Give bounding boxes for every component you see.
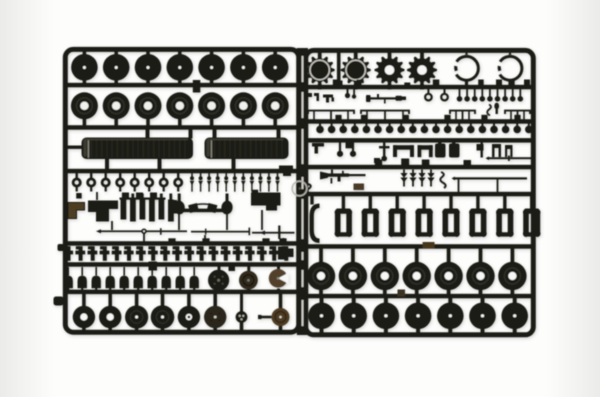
gate block on rail L5 #2 xyxy=(229,264,236,272)
horizontal runner rail L4 left half xyxy=(65,241,299,246)
clip bracket #16 xyxy=(248,246,252,261)
solid road wheel #4 xyxy=(416,298,420,305)
hub wheel row2 #4 xyxy=(166,92,193,119)
clip bracket #4 xyxy=(103,246,107,261)
round-head pin row2 #10 xyxy=(423,123,425,127)
tree pin #3 xyxy=(418,173,425,178)
curved channel bracket xyxy=(310,196,313,205)
screw pin #3 xyxy=(208,173,210,178)
road wheel with hub #7 xyxy=(511,249,515,263)
wire gate below hub wheel 4 xyxy=(178,119,182,126)
solid road wheel #7 xyxy=(513,298,517,305)
U-channel bracket #1 xyxy=(393,145,414,150)
gate square below rail L3 xyxy=(136,193,143,200)
dome knob #8 xyxy=(165,267,167,276)
S-curl part xyxy=(440,172,445,188)
stem between sprockets xyxy=(337,53,341,86)
drive sprocket #3 xyxy=(375,50,405,90)
gate square above rail A xyxy=(357,80,362,88)
horizontal runner rail F right half xyxy=(306,244,534,249)
gate square on rail B xyxy=(335,115,341,121)
gate block on rail L1 xyxy=(193,80,201,93)
pin head-down #4 xyxy=(481,89,483,97)
junction seam slit xyxy=(302,199,304,239)
hammer pin #1 xyxy=(339,142,341,152)
tree pin #2 xyxy=(409,173,416,178)
ring-head rivet #6 xyxy=(148,173,150,179)
road wheel with hub #1 xyxy=(319,249,323,263)
track shackle link #1 xyxy=(342,196,345,210)
junction seam bar xyxy=(297,48,308,335)
gate square above rail A xyxy=(524,80,530,88)
junction seam slit xyxy=(302,270,304,287)
drive sprocket #4 xyxy=(407,50,437,90)
junction seam slit xyxy=(302,129,304,164)
round-head pin row2 #4 xyxy=(354,123,356,127)
pin head-down #6 xyxy=(497,89,499,97)
horizontal runner rail L5 left half xyxy=(65,262,299,267)
small ring part #2 xyxy=(444,89,446,94)
screw pin #8 xyxy=(251,173,253,178)
dome knob #6 xyxy=(137,267,139,276)
gate square on rail L4 xyxy=(279,238,286,244)
road wheel with hub #2 xyxy=(351,249,355,263)
ribbed exhaust cylinder right xyxy=(205,138,289,160)
small S-hook part xyxy=(487,105,491,116)
wire gate above disc 3 xyxy=(146,51,150,57)
part on rail L3 near seam xyxy=(279,166,293,172)
sprue frame right half outer border xyxy=(306,50,534,334)
screw pin #10 xyxy=(268,173,270,178)
gate square on rail L4 xyxy=(168,238,175,244)
wire gate below disc 3 xyxy=(146,79,150,85)
horizontal runner rail A right half xyxy=(306,85,534,90)
wire gate below hub wheel 2 xyxy=(114,119,118,126)
horizontal runner rail C right half xyxy=(306,138,534,143)
pin head-down #7 xyxy=(504,89,506,97)
grab handle rod #2 xyxy=(361,111,409,114)
bottom road wheel #4 xyxy=(161,294,165,307)
wire gate above disc 4 xyxy=(178,51,182,57)
dome knob #5 xyxy=(123,267,125,276)
bottom road wheel #2 xyxy=(108,294,112,308)
thin axle rod with bead xyxy=(96,229,101,233)
gate square on rail B xyxy=(403,115,409,121)
round-head pin row2 #12 xyxy=(447,123,449,127)
track shackle link #4 xyxy=(422,196,425,210)
clip bracket #6 xyxy=(127,246,131,261)
clip bracket #18 xyxy=(272,246,276,261)
sprue stem xyxy=(96,192,98,200)
gate square below rail L3 xyxy=(76,193,82,199)
wire gate below disc 1 xyxy=(83,79,87,85)
axle assembly right wheel xyxy=(221,200,234,215)
round-head pin row2 #14 xyxy=(470,123,472,127)
large road-wheel disc row1 #2 xyxy=(103,54,130,81)
ring-head rivet #3 xyxy=(105,173,107,179)
hub wheel row2 #6 xyxy=(230,92,257,119)
round-head pin row2 #17 xyxy=(505,123,507,127)
sprue stem xyxy=(204,235,206,242)
S-hook left xyxy=(307,184,311,194)
track shackle link #7 xyxy=(503,196,506,210)
ring-head rivet #1 xyxy=(76,173,78,179)
ribbed exhaust cylinder left xyxy=(82,138,194,160)
open retaining ring #2 xyxy=(498,51,522,86)
solid road wheel #5 xyxy=(448,298,452,305)
solid block part xyxy=(251,193,281,206)
gate block on rail F xyxy=(423,242,435,249)
open retaining ring #1 xyxy=(454,51,478,86)
bottom road wheel #3 xyxy=(135,294,139,307)
tree pin #4 xyxy=(427,173,434,178)
clip bracket #14 xyxy=(224,246,228,261)
grab handle rod #3 xyxy=(450,111,475,114)
pin head-down #8 xyxy=(512,89,514,97)
clip bracket #15 xyxy=(236,246,240,261)
sprue stem xyxy=(283,238,285,242)
canister part #1 xyxy=(435,144,446,158)
gate square on rail B xyxy=(444,115,450,121)
grab handle rod #1 xyxy=(308,111,354,114)
screw pin #7 xyxy=(243,173,245,178)
round-head pin row2 #7 xyxy=(389,123,391,127)
gate square above rail A xyxy=(333,80,340,88)
screw pin #5 xyxy=(225,173,227,178)
hub wheel row2 #1 xyxy=(71,92,98,119)
round-head pin row2 #3 xyxy=(342,123,344,127)
axle assembly linkage xyxy=(182,209,224,213)
wire gate below right cylinder xyxy=(232,158,236,169)
horizontal runner rail G right half xyxy=(306,294,534,299)
horizontal runner rail L6 left half xyxy=(65,290,299,295)
bottom road wheel #6 xyxy=(213,294,217,308)
small lever part xyxy=(496,103,498,114)
gate block on rail L5 xyxy=(149,262,158,271)
tab on left frame edge upper xyxy=(58,244,65,251)
clevis fork #1 xyxy=(492,144,501,157)
valve figure part xyxy=(383,143,385,158)
horizontal runner rail D right half xyxy=(306,165,534,170)
wire gate above disc 7 xyxy=(273,51,277,57)
wire gate above right cylinder end xyxy=(277,129,281,139)
road wheel with hub #4 xyxy=(415,249,419,263)
gate square on rail B xyxy=(361,115,367,121)
dome knob #7 xyxy=(151,267,153,276)
dome knob #9 xyxy=(179,267,181,276)
T-handle rod xyxy=(252,232,295,234)
machine gun part xyxy=(320,172,328,180)
clip bracket #19 xyxy=(284,246,288,261)
drive sprocket #2 xyxy=(341,50,371,90)
clip bracket #17 xyxy=(260,246,264,261)
road wheel with hub #3 xyxy=(383,249,387,263)
junction seam slit xyxy=(302,56,304,82)
large road-wheel disc row1 #3 xyxy=(135,54,162,81)
round-head pin row2 #1 xyxy=(319,123,321,127)
pin head-down #5 xyxy=(489,89,491,97)
wire gate below left cylinder xyxy=(105,158,109,169)
wire gate below hub wheel 7 xyxy=(273,119,277,126)
small hook pair xyxy=(345,93,350,98)
bottom road wheel #1 xyxy=(82,294,86,308)
gate square above rail A xyxy=(509,80,515,88)
gate square below rail L3 xyxy=(150,193,157,200)
tab on left frame edge lower xyxy=(54,297,64,306)
track shackle link #3 xyxy=(396,196,399,210)
comb plate bar #3 xyxy=(140,200,146,220)
stepped bracket part (brown) xyxy=(68,203,85,219)
wire gate below disc 5 xyxy=(210,79,214,85)
stepped bracket part 2 xyxy=(88,201,118,222)
small bar part xyxy=(173,200,178,214)
gate square on rail B xyxy=(514,115,520,121)
gate square above rail A xyxy=(433,80,440,88)
clip bracket #7 xyxy=(139,246,143,261)
ring-head rivet #5 xyxy=(134,173,136,179)
round-head pin row2 #18 xyxy=(516,123,518,127)
gate square above rail A xyxy=(496,80,502,88)
gate square on rail B xyxy=(481,115,487,121)
road wheel with hub #5 xyxy=(447,249,451,263)
screw pin #4 xyxy=(217,173,219,178)
solid road wheel #6 xyxy=(481,298,485,305)
wire gate above disc 5 xyxy=(210,51,214,57)
solid road wheel #2 xyxy=(352,298,356,305)
clip bracket #5 xyxy=(115,246,119,261)
horizontal runner rail L3 left half xyxy=(65,169,299,174)
sprue stem xyxy=(226,214,228,230)
junction seam slit xyxy=(302,300,304,326)
pin head-down #1 xyxy=(459,89,461,97)
comb plate bar #6 xyxy=(168,200,174,222)
round-head pin row2 #9 xyxy=(412,123,414,127)
round-head pin row2 #2 xyxy=(331,123,333,127)
road wheel with hub #6 xyxy=(479,249,483,263)
track shackle link #6 xyxy=(476,196,479,210)
sprue stem xyxy=(111,221,113,230)
gate square above rail D #1 xyxy=(375,160,382,168)
screw pin #1 xyxy=(191,173,193,178)
tow hook part xyxy=(306,93,312,102)
axle assembly left wheel xyxy=(173,200,186,215)
ring-head rivet #2 xyxy=(90,173,92,179)
dome knob #4 xyxy=(109,267,111,276)
clip bracket #8 xyxy=(151,246,155,261)
screw pin #2 xyxy=(200,173,202,178)
gate square on rail C xyxy=(346,142,353,148)
wire gate above disc 1 xyxy=(83,51,87,57)
wire gate below hub wheel 5 xyxy=(210,119,214,126)
round-head pin row2 #19 xyxy=(528,123,530,127)
wire gate below left cylinder 2 xyxy=(158,158,162,169)
pin head-down #9 xyxy=(519,89,521,97)
grab handle rod #4 xyxy=(505,111,530,114)
track shackle link #8 xyxy=(530,196,533,210)
thin rod above rail D xyxy=(487,157,531,159)
junction seam slit xyxy=(302,177,304,189)
embossed circle mark xyxy=(292,181,307,196)
large road-wheel disc row1 #1 xyxy=(71,54,98,81)
tree pin #1 xyxy=(400,173,407,178)
gate square above rail D #2 xyxy=(401,159,409,168)
comb plate bar #1 xyxy=(121,200,127,220)
wire gate above right cylinder xyxy=(213,129,217,139)
wire gate below hub wheel 3 xyxy=(146,119,150,126)
round-head pin row2 #8 xyxy=(400,123,402,127)
gate square above rail A xyxy=(478,80,484,88)
wire gate below hub wheel 1 xyxy=(83,119,87,126)
wire gate above disc 2 xyxy=(114,51,118,57)
round-head pin row2 #16 xyxy=(493,123,495,127)
clip bracket #13 xyxy=(212,246,216,261)
wire gate left of cylinder xyxy=(67,146,83,149)
hammer pin #2 xyxy=(352,142,354,152)
clip bracket #11 xyxy=(188,246,192,261)
bottom road wheel #8 xyxy=(279,294,283,310)
drive sprocket #1 xyxy=(305,50,335,90)
blocks near seam xyxy=(278,247,285,260)
wire gate below disc 2 xyxy=(114,79,118,85)
large road-wheel disc row1 #6 xyxy=(230,54,257,81)
axe part xyxy=(481,143,483,158)
sprue stem xyxy=(261,210,263,230)
sprue frame left half outer border xyxy=(65,49,298,332)
gun barrel part xyxy=(366,95,371,102)
thin axle rod 2 xyxy=(191,231,250,233)
small ring part #1 xyxy=(427,89,429,94)
ring-head rivet #8 xyxy=(177,173,179,179)
hub disc with lug holes xyxy=(218,267,221,273)
clevis fork #2 xyxy=(505,145,513,157)
sprue stem xyxy=(143,233,145,242)
screw pin #11 xyxy=(277,173,279,178)
gate square on rail L4 xyxy=(262,238,269,244)
brown gate block on rail E xyxy=(354,184,365,191)
horizontal runner rail E right half xyxy=(306,192,534,197)
clamp part xyxy=(312,143,324,154)
clip bracket #3 xyxy=(91,246,95,261)
gate block on rail A xyxy=(404,83,410,89)
track shackle link #2 xyxy=(369,196,372,210)
hub wheel row2 #2 xyxy=(103,92,130,119)
comb plate bar #5 xyxy=(159,200,165,220)
ring-head rivet #7 xyxy=(163,173,165,179)
bottom road wheel #5 xyxy=(187,294,191,308)
wire gate below disc 4 xyxy=(178,79,182,85)
clip bracket #9 xyxy=(163,246,167,261)
large road-wheel disc row1 #4 xyxy=(167,54,194,81)
round-head pin row2 #5 xyxy=(365,123,367,127)
comb plate bar #4 xyxy=(149,200,155,222)
screw pin #6 xyxy=(234,173,236,178)
pin head-down #3 xyxy=(474,89,476,97)
screw pin #9 xyxy=(260,173,262,178)
hub wheel row2 #5 xyxy=(198,92,225,119)
clip bracket #2 xyxy=(79,246,83,261)
gate block on rail G xyxy=(398,290,406,297)
bottom road wheel #7 xyxy=(240,294,243,312)
solid road wheel #1 xyxy=(320,298,324,305)
junction seam slit xyxy=(302,252,304,260)
round-head pin row2 #15 xyxy=(481,123,483,127)
hinge part xyxy=(323,95,333,98)
horizontal runner rail L1 left half xyxy=(65,83,299,88)
wire gate below hub wheel 6 xyxy=(242,119,246,126)
junction seam slit xyxy=(302,92,304,118)
horizontal runner rail B right half xyxy=(306,119,534,124)
sprue stem xyxy=(178,214,180,230)
pin head-down #2 xyxy=(466,89,468,97)
wire gate below disc 6 xyxy=(242,79,246,85)
dome knob #10 xyxy=(193,267,195,276)
comb plate bar #2 xyxy=(130,200,136,222)
dome knob #2 xyxy=(81,267,83,276)
hub wheel row2 #7 xyxy=(262,92,289,119)
track shackle link #5 xyxy=(449,196,452,210)
gate square below rail L3 xyxy=(122,193,129,200)
round-head pin row2 #11 xyxy=(435,123,437,127)
round-head pin row2 #6 xyxy=(377,123,379,127)
large road-wheel disc row1 #5 xyxy=(198,54,225,81)
wire gate above left cylinder end xyxy=(189,129,193,139)
notched hub disc (brown) xyxy=(277,267,280,273)
comb plate top bar xyxy=(120,198,166,200)
horizontal runner rail L2 left half xyxy=(65,125,299,130)
wire gate above disc 6 xyxy=(242,51,246,57)
clip bracket #1 xyxy=(67,246,71,261)
canister part #2 xyxy=(449,144,460,158)
round-head pin row2 #13 xyxy=(458,123,460,127)
gate square above rail D #3 xyxy=(422,160,430,168)
hub disc olive with lug holes xyxy=(247,267,250,273)
gate square below rail L3 xyxy=(252,190,258,196)
hub wheel row2 #3 xyxy=(135,92,162,119)
clip bracket #10 xyxy=(175,246,179,261)
wire gate above left cylinder xyxy=(146,129,150,139)
gate square above rail D #4 xyxy=(464,160,472,168)
solid road wheel #3 xyxy=(384,298,388,305)
dome knob #3 xyxy=(95,267,97,276)
dome knob #1 xyxy=(67,267,69,276)
clip bracket #12 xyxy=(200,246,204,261)
long rod part D xyxy=(453,177,527,179)
large road-wheel disc row1 #7 xyxy=(262,54,289,81)
wire gate below disc 7 xyxy=(273,79,277,85)
U-channel bracket #2 xyxy=(418,145,433,150)
ring-head rivet #4 xyxy=(119,173,121,179)
gate square on rail L4 xyxy=(202,238,209,244)
